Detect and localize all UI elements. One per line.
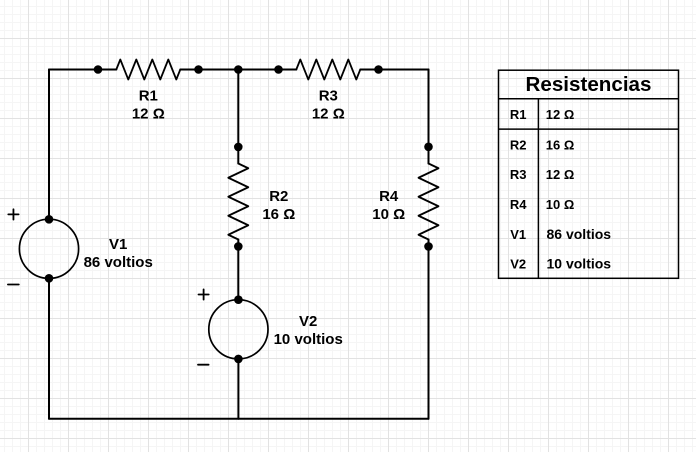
resistor R2 — [228, 164, 248, 240]
svg-text:V1: V1 — [510, 227, 526, 242]
wire top-middle segment — [180, 69, 296, 71]
node dot top 2 — [194, 65, 203, 74]
node dot R4 top — [424, 143, 433, 152]
svg-text:V2: V2 — [299, 313, 317, 330]
node dot V2 top — [234, 295, 243, 304]
svg-text:V2: V2 — [510, 257, 526, 272]
svg-text:R2: R2 — [510, 137, 527, 152]
wire left upper — [48, 70, 50, 220]
node dot top 3 — [274, 65, 283, 74]
V1 plus sign — [8, 209, 18, 219]
voltage source V1 — [19, 219, 78, 278]
wire top-left segment — [49, 69, 116, 71]
wire middle lower — [237, 359, 239, 419]
svg-text:R2: R2 — [269, 188, 288, 205]
svg-text:Resistencias: Resistencias — [526, 73, 652, 96]
wire right lower — [428, 240, 430, 419]
node junction T — [234, 65, 243, 74]
wire left lower — [48, 278, 50, 419]
wire bottom — [49, 418, 429, 420]
V2 plus sign — [199, 289, 209, 299]
svg-text:16 Ω: 16 Ω — [262, 206, 295, 223]
table column divider — [537, 99, 539, 278]
resistor R1 — [116, 60, 180, 80]
svg-text:R4: R4 — [510, 197, 527, 212]
node dot V1 top — [45, 215, 54, 224]
svg-text:12 Ω: 12 Ω — [546, 167, 575, 182]
node dot V1 bottom — [45, 274, 54, 283]
table Resistencias frame — [499, 70, 679, 278]
table R1 row separator — [499, 128, 679, 130]
V2 minus sign — [198, 364, 209, 366]
svg-text:86 voltios: 86 voltios — [547, 226, 612, 242]
svg-text:86 voltios: 86 voltios — [84, 254, 153, 271]
resistor R3 — [296, 60, 360, 80]
svg-text:16 Ω: 16 Ω — [546, 137, 575, 152]
node dot R4 bottom — [424, 242, 433, 251]
node dot V2 bottom — [234, 355, 243, 364]
node dot R2 top — [234, 143, 243, 152]
svg-text:R3: R3 — [510, 167, 527, 182]
V1 minus sign — [8, 284, 19, 286]
node dot top 1 — [94, 65, 103, 74]
svg-text:10 voltios: 10 voltios — [547, 256, 612, 272]
node dot R2 bottom — [234, 242, 243, 251]
svg-text:10 Ω: 10 Ω — [372, 206, 405, 223]
svg-text:R3: R3 — [319, 87, 338, 104]
svg-text:R1: R1 — [510, 107, 527, 122]
voltage source V2 — [209, 300, 268, 359]
svg-text:12 Ω: 12 Ω — [546, 107, 575, 122]
wire top-right segment — [360, 69, 428, 71]
node dot top 4 — [374, 65, 383, 74]
svg-text:10 voltios: 10 voltios — [274, 331, 343, 348]
table header separator — [499, 98, 679, 100]
svg-text:V1: V1 — [109, 236, 127, 253]
svg-text:R1: R1 — [139, 87, 158, 104]
wire right upper — [428, 70, 430, 164]
resistor R4 — [419, 164, 439, 240]
svg-text:R4: R4 — [379, 188, 399, 205]
wire middle upper — [237, 70, 239, 164]
svg-text:10 Ω: 10 Ω — [546, 197, 575, 212]
svg-text:12 Ω: 12 Ω — [132, 106, 165, 123]
svg-text:12 Ω: 12 Ω — [312, 106, 345, 123]
wire middle between R2 and V2 — [237, 240, 239, 300]
